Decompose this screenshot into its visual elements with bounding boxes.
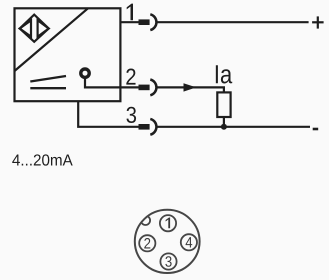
wire pin 1 stub — [120, 21, 138, 23]
wire 2 to resistor — [156, 87, 224, 92]
wire from output circle to pin 2 — [85, 78, 120, 88]
right inner triangle — [38, 20, 49, 36]
wire 1 to plus — [156, 21, 308, 23]
minus terminal — [313, 128, 319, 131]
connector face outline — [135, 210, 200, 273]
junction node — [221, 124, 227, 130]
output circle — [81, 69, 89, 77]
connector pin 2 — [139, 235, 155, 251]
proximity sensor symbol (rhombus) — [20, 15, 49, 42]
current direction arrow — [184, 83, 197, 91]
left inner triangle — [20, 20, 31, 36]
resistor load Ia — [217, 92, 230, 117]
connector plug pin 2 — [139, 80, 157, 96]
wire resistor to node — [223, 117, 225, 127]
connector pin 4 — [181, 234, 197, 250]
connector pin 1 — [160, 215, 176, 231]
pin label 2 — [126, 69, 135, 85]
connector plug pin 3 — [139, 119, 157, 135]
switch contact base — [30, 87, 66, 89]
wire 3 to minus — [156, 126, 310, 128]
switch contact lever — [30, 76, 66, 82]
pin label 3 — [126, 107, 136, 123]
diagonal divider — [15, 8, 89, 71]
label 4...20mA — [12, 154, 72, 165]
label Ia — [216, 65, 232, 83]
wire pin 2 stub — [120, 86, 138, 88]
plus terminal — [312, 16, 324, 28]
connector plug pin 1 — [139, 14, 157, 30]
wire pin 3 drop from box — [78, 101, 138, 127]
sensor box U1 — [15, 8, 121, 101]
pin label 1 — [127, 4, 133, 21]
keying notch — [141, 216, 150, 225]
connector pin 3 — [160, 253, 176, 269]
